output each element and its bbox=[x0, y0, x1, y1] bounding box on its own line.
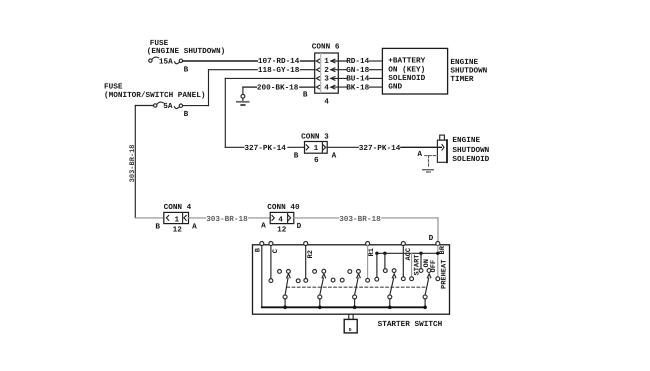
CONN6 pin4 chevron left bbox=[316, 85, 319, 89]
svg-text:12: 12 bbox=[173, 226, 183, 235]
bus 253 bbox=[377, 252, 438, 254]
svg-text:4: 4 bbox=[324, 98, 329, 107]
CONN6 pin2 arrow right bbox=[331, 68, 335, 72]
svg-text:1: 1 bbox=[324, 57, 329, 66]
svg-text:BK-18: BK-18 bbox=[346, 83, 369, 92]
wire pin3 to CONN3 bbox=[225, 77, 314, 79]
svg-text:CONN 4: CONN 4 bbox=[164, 203, 192, 212]
svg-text:B: B bbox=[184, 65, 189, 74]
svg-text:BR: BR bbox=[439, 245, 447, 254]
svg-text:1: 1 bbox=[175, 216, 180, 225]
svg-text:SOLENOID: SOLENOID bbox=[388, 74, 425, 83]
svg-text:+BATTERY: +BATTERY bbox=[388, 57, 425, 66]
svg-text:GN-18: GN-18 bbox=[346, 66, 369, 75]
starter switch box S1 bbox=[253, 245, 450, 314]
blade 2 bbox=[318, 295, 322, 299]
svg-text:303-BR-18: 303-BR-18 bbox=[129, 144, 137, 182]
svg-text:B: B bbox=[303, 90, 308, 99]
svg-text:TIMER: TIMER bbox=[450, 75, 473, 84]
svg-text:CONN 40: CONN 40 bbox=[267, 203, 300, 212]
svg-text:A: A bbox=[192, 223, 197, 232]
svg-text:5A: 5A bbox=[163, 102, 173, 111]
wire 107-RD-14 bbox=[183, 60, 257, 62]
svg-text:SHUTDOWN: SHUTDOWN bbox=[452, 146, 489, 155]
svg-text:3: 3 bbox=[324, 75, 329, 84]
svg-text:SHUTDOWN: SHUTDOWN bbox=[450, 67, 487, 76]
svg-text:GND: GND bbox=[388, 83, 402, 92]
svg-text:15A: 15A bbox=[159, 57, 173, 66]
svg-text:303-BR-18: 303-BR-18 bbox=[339, 215, 381, 224]
CONN6 pin1 arrow right bbox=[331, 59, 335, 63]
svg-text:A: A bbox=[261, 221, 266, 230]
wire 327-PK-14 left bbox=[225, 146, 244, 148]
svg-text:SOLENOID: SOLENOID bbox=[452, 155, 489, 164]
wire 327-PK-14 right bbox=[327, 146, 358, 148]
svg-text:B: B bbox=[155, 223, 160, 232]
svg-text:CONN 6: CONN 6 bbox=[312, 42, 340, 51]
ON drop bbox=[420, 253, 422, 268]
fuse F2 5A bbox=[154, 104, 157, 107]
key box bbox=[348, 314, 350, 319]
svg-text:107-RD-14: 107-RD-14 bbox=[258, 57, 300, 66]
svg-text:4: 4 bbox=[278, 216, 283, 225]
terminal ACC bbox=[401, 242, 405, 246]
svg-text:A: A bbox=[332, 151, 337, 160]
svg-text:ON (KEY): ON (KEY) bbox=[388, 65, 425, 74]
CONN6 pin3 chevron left bbox=[316, 77, 319, 81]
terminal BR bbox=[436, 242, 440, 246]
svg-text:STARTER SWITCH: STARTER SWITCH bbox=[378, 320, 443, 329]
ground G1 bbox=[241, 94, 245, 98]
svg-text:C: C bbox=[272, 249, 280, 253]
engine shutdown solenoid L1 bbox=[440, 135, 445, 140]
svg-text:6: 6 bbox=[314, 156, 319, 165]
fuse F1 15A bbox=[149, 59, 152, 62]
svg-text:303-BR-18: 303-BR-18 bbox=[206, 215, 248, 224]
svg-text:200-BK-18: 200-BK-18 bbox=[257, 83, 299, 92]
svg-text:PREHEAT: PREHEAT bbox=[440, 260, 448, 289]
svg-text:FUSE: FUSE bbox=[150, 39, 169, 48]
svg-text:RD-14: RD-14 bbox=[346, 57, 369, 66]
terminal R1 bbox=[366, 242, 370, 246]
wire from 5A fuse to pin2 node bbox=[135, 105, 153, 107]
row B floating contact circles bbox=[296, 279, 300, 283]
svg-text:FUSE: FUSE bbox=[104, 83, 123, 92]
svg-text:D: D bbox=[349, 327, 352, 333]
wire 200-BK-18 bbox=[243, 86, 257, 88]
engine shutdown timer box U1 bbox=[382, 48, 447, 94]
svg-text:A: A bbox=[417, 150, 422, 159]
row A contact circles bbox=[278, 270, 282, 274]
svg-text:ENGINE: ENGINE bbox=[450, 58, 478, 67]
svg-text:BU-14: BU-14 bbox=[346, 75, 369, 84]
svg-text:4: 4 bbox=[324, 83, 329, 92]
blade 3 bbox=[353, 295, 357, 299]
svg-text:B: B bbox=[294, 151, 299, 160]
svg-text:B: B bbox=[184, 110, 189, 119]
wire 303-BR-18 right to D bbox=[294, 217, 339, 219]
svg-text:327-PK-14: 327-PK-14 bbox=[359, 144, 401, 153]
CONN6 pin3 arrow right bbox=[331, 77, 335, 81]
CONN6 pin4 arrow right bbox=[331, 85, 335, 89]
dashed ground at solenoid bbox=[425, 155, 438, 157]
svg-text:ENGINE: ENGINE bbox=[452, 136, 480, 145]
terminal B bbox=[260, 242, 264, 246]
START drop bbox=[411, 253, 413, 276]
bottom bus bbox=[262, 306, 425, 308]
wire 303-BR-18 vertical left bbox=[134, 106, 136, 218]
CONN6 pin2 chevron left bbox=[316, 68, 319, 72]
terminal R2 bbox=[304, 242, 308, 246]
svg-text:R2: R2 bbox=[307, 250, 315, 258]
svg-text:(ENGINE SHUTDOWN): (ENGINE SHUTDOWN) bbox=[147, 47, 225, 56]
wire 303-BR-18 mid bbox=[189, 217, 206, 219]
svg-text:R1: R1 bbox=[368, 248, 376, 256]
svg-text:(MONITOR/SWITCH PANEL): (MONITOR/SWITCH PANEL) bbox=[104, 91, 206, 100]
blade 4 bbox=[388, 295, 392, 299]
svg-text:2: 2 bbox=[324, 66, 329, 75]
dashed linkage bbox=[287, 286, 427, 288]
CONN6 pin1 chevron left bbox=[316, 59, 319, 63]
svg-text:327-PK-14: 327-PK-14 bbox=[244, 144, 286, 153]
svg-text:D: D bbox=[429, 234, 434, 243]
svg-text:1: 1 bbox=[314, 144, 319, 153]
svg-text:12: 12 bbox=[277, 226, 287, 235]
drop to blade4 left contact bbox=[384, 253, 386, 268]
blade 5 bbox=[423, 295, 427, 299]
svg-text:D: D bbox=[297, 222, 302, 231]
terminal C bbox=[269, 242, 273, 246]
drop to row B from bus bbox=[376, 253, 378, 277]
svg-text:118-GY-18: 118-GY-18 bbox=[258, 66, 300, 75]
wire 118-GY-18 bbox=[209, 69, 258, 71]
svg-text:CONN 3: CONN 3 bbox=[301, 132, 329, 141]
blade 1 bbox=[283, 295, 287, 299]
